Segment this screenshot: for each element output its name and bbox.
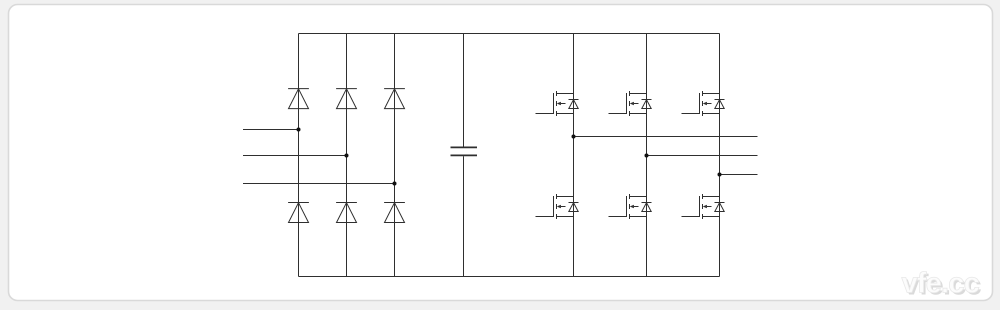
- wire: AC input phase 1: [243, 129, 299, 131]
- arrow Q6: [703, 205, 707, 209]
- diode D3: [384, 89, 405, 109]
- node: output W junction: [718, 173, 722, 177]
- transistor Q1: [536, 91, 579, 116]
- node: phase2 to leg2 junction: [345, 154, 349, 158]
- arrow Q2: [630, 102, 634, 106]
- wire: AC input phase 3: [243, 183, 395, 185]
- wire: rectifier leg 1: [298, 34, 300, 277]
- capacitor C1: [451, 147, 478, 155]
- diode D1: [288, 89, 309, 109]
- wire: inverter leg 1: [573, 34, 575, 277]
- arrow Q4: [557, 205, 561, 209]
- node: output U junction: [572, 135, 576, 139]
- wire: capacitor leg bottom: [463, 156, 465, 276]
- svg-text:vfe.cc: vfe.cc: [902, 268, 980, 300]
- arrow Q1: [557, 102, 561, 106]
- transistor Q3: [682, 91, 725, 116]
- transistor Q2: [609, 91, 652, 116]
- wire: AC input phase 2: [243, 155, 347, 157]
- wire: top DC+ rail: [299, 33, 720, 35]
- node: output V junction: [645, 154, 649, 158]
- wire: capacitor leg top: [463, 34, 465, 147]
- wire: AC output phase V: [647, 155, 758, 157]
- transistor Q4: [536, 194, 579, 219]
- diode D5: [336, 203, 357, 223]
- diode D2: [336, 89, 357, 109]
- wire: rectifier leg 2: [346, 34, 348, 277]
- wire: rectifier leg 3: [394, 34, 396, 277]
- wire: AC output phase U: [574, 136, 758, 138]
- arrow Q3: [703, 102, 707, 106]
- wire: AC output phase W: [720, 174, 758, 176]
- diode D4: [288, 203, 309, 223]
- node: phase3 to leg3 junction: [393, 182, 397, 186]
- transistor Q6: [682, 194, 725, 219]
- arrow Q5: [630, 205, 634, 209]
- node: phase1 to leg1 junction: [297, 128, 301, 132]
- diode D6: [384, 203, 405, 223]
- wire: inverter leg 2: [646, 34, 648, 277]
- wire: inverter leg 3 / right edge: [719, 34, 721, 277]
- wire: bottom DC- rail: [299, 276, 720, 278]
- transistor Q5: [609, 194, 652, 219]
